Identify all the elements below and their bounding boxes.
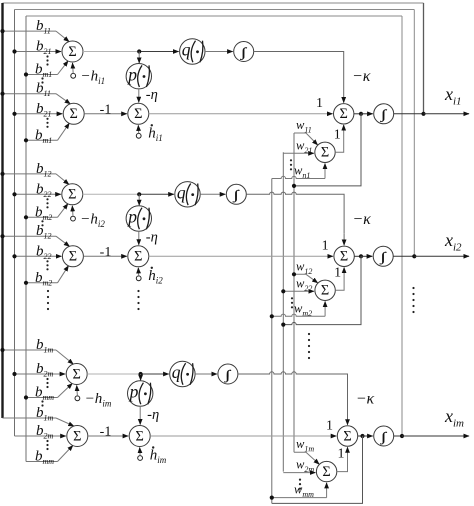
svg-text:Σ: Σ [69, 249, 77, 265]
svg-text:p: p [126, 64, 137, 84]
svg-text:p: p [126, 207, 137, 227]
svg-text:q: q [172, 362, 181, 382]
svg-text:Σ: Σ [68, 187, 76, 203]
svg-text:1: 1 [316, 96, 323, 111]
svg-text:-1: -1 [100, 245, 112, 260]
svg-text:−κ: −κ [352, 211, 371, 228]
svg-text:−κ: −κ [352, 68, 371, 85]
svg-text:Σ: Σ [134, 249, 142, 265]
svg-text:-η: -η [146, 230, 158, 246]
svg-text:Σ: Σ [68, 44, 76, 60]
svg-text:Σ: Σ [73, 428, 81, 444]
svg-text:Σ: Σ [136, 428, 144, 444]
svg-text:1: 1 [326, 418, 333, 433]
svg-text:-1: -1 [100, 102, 112, 117]
svg-text:q: q [182, 40, 191, 60]
svg-text:Σ: Σ [321, 145, 329, 161]
svg-text:Σ: Σ [340, 249, 348, 265]
svg-text:-1: -1 [100, 425, 112, 440]
svg-text:Σ: Σ [73, 366, 81, 382]
svg-text:-η: -η [147, 407, 159, 423]
svg-text:1: 1 [322, 239, 329, 254]
svg-text:Σ: Σ [134, 106, 142, 122]
svg-text:-η: -η [146, 87, 158, 103]
svg-text:−κ: −κ [356, 391, 375, 408]
svg-text:Σ: Σ [321, 283, 329, 299]
svg-text:Σ: Σ [343, 428, 351, 444]
svg-text:Σ: Σ [322, 464, 330, 480]
svg-text:1: 1 [334, 127, 341, 142]
svg-text:Σ: Σ [340, 106, 348, 122]
svg-text:p: p [128, 382, 139, 402]
svg-text:Σ: Σ [70, 106, 78, 122]
svg-text:q: q [177, 183, 186, 203]
svg-text:1: 1 [338, 447, 345, 462]
svg-text:1: 1 [334, 265, 341, 280]
